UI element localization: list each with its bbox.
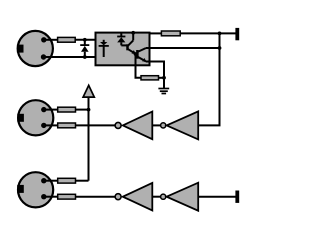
- node Q1 collector: [131, 31, 135, 35]
- terminal +5V: [235, 28, 239, 40]
- resistor R3: [141, 76, 159, 80]
- inverter C bubble: [115, 194, 121, 200]
- diode D1: [80, 40, 89, 57]
- inverter B: [167, 111, 199, 139]
- terminal UART TX: [235, 191, 239, 203]
- node Q1 emitter / Q2 base: [134, 52, 138, 56]
- wire R5 to inverter A output: [76, 124, 116, 126]
- inverter D bubble: [161, 194, 166, 199]
- LED inside U1: [99, 40, 109, 57]
- wire R7 to inverter C output: [76, 196, 116, 198]
- wire R3 to ground node: [159, 77, 165, 79]
- pin 4 J1: [41, 37, 46, 42]
- resistor R4: [58, 107, 76, 112]
- pin 4 J3: [41, 178, 46, 183]
- wire pin4 to R4: [44, 109, 58, 111]
- connector J1 key notch: [17, 45, 24, 53]
- wire pin4 to R1: [44, 39, 58, 41]
- inverter A: [123, 112, 153, 140]
- connector J2 (MIDI THRU DIN): [18, 100, 53, 135]
- connector J3 (MIDI OUT DIN): [18, 172, 53, 207]
- connector J2 key notch: [17, 114, 24, 122]
- wire inverter D to terminal: [198, 196, 236, 198]
- transistor Q2: [136, 48, 147, 62]
- pin 5 J2: [41, 123, 46, 128]
- photodiode inside U1: [117, 33, 127, 46]
- optocoupler U1 body: [96, 33, 150, 66]
- pin 4 J2: [41, 107, 46, 112]
- wire R1 to opto LED: [75, 39, 104, 41]
- connector J1 (MIDI IN DIN): [18, 31, 53, 66]
- wire pin5 to R7: [44, 196, 58, 198]
- wire Q2 collector out: [146, 47, 220, 49]
- inverter D: [167, 183, 199, 211]
- node diode top: [83, 38, 87, 42]
- pin 5 J3: [41, 194, 46, 199]
- connector J3 key notch: [17, 185, 24, 193]
- transistor Q1: [128, 33, 137, 55]
- resistor R6: [58, 178, 76, 183]
- wire box to R2: [150, 32, 162, 34]
- node R4 +5V: [87, 108, 91, 112]
- resistor R7: [58, 194, 76, 199]
- resistor R1: [58, 37, 76, 42]
- ground: [158, 78, 169, 94]
- wire between inverters C D: [152, 196, 161, 198]
- wire pin4 to R6: [44, 180, 58, 182]
- inverter B bubble: [161, 123, 166, 128]
- inverter A bubble: [115, 122, 121, 128]
- node rail junction: [218, 32, 222, 36]
- wire Q2 base down to R3: [136, 54, 142, 78]
- wire between inverters A B: [152, 124, 161, 126]
- resistor R2: [161, 31, 180, 36]
- node emitter/R3/ground: [162, 76, 166, 80]
- pin 5 J1: [41, 54, 46, 59]
- node diode bottom: [83, 55, 87, 59]
- wire pin5 to R5: [44, 124, 58, 126]
- resistor R5: [58, 123, 76, 128]
- wire pin5 to opto LED cathode: [44, 56, 104, 58]
- wire Q2 emitter down: [146, 62, 164, 78]
- wire R4 to +5V line: [76, 109, 89, 111]
- node collector junction: [218, 46, 222, 50]
- wire R6 to +5V line: [76, 180, 89, 182]
- power +5V symbol: [83, 85, 94, 180]
- inverter C: [123, 183, 153, 211]
- wire junction vertical to THRU chain: [198, 33, 219, 125]
- wire R2 to terminal: [180, 32, 236, 34]
